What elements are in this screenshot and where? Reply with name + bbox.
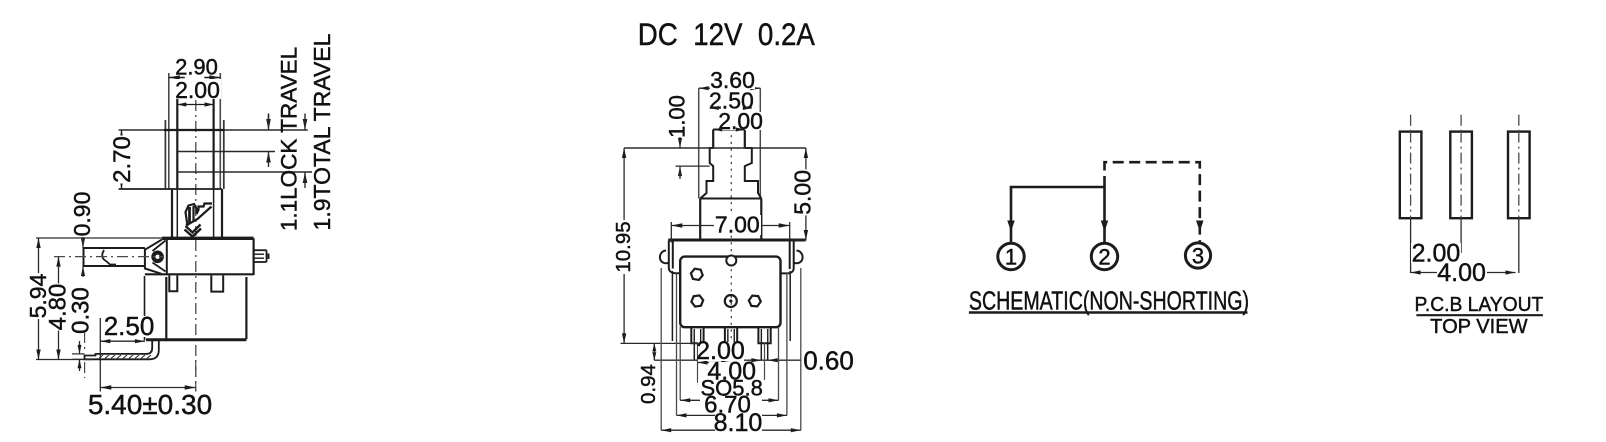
svg-text:0.60: 0.60: [803, 346, 854, 376]
svg-text:2.00: 2.00: [175, 77, 220, 103]
svg-text:1: 1: [1005, 245, 1017, 270]
svg-text:2: 2: [1098, 245, 1110, 270]
svg-text:TOP VIEW: TOP VIEW: [1430, 316, 1528, 338]
svg-text:1.9TOTAL TRAVEL: 1.9TOTAL TRAVEL: [309, 33, 335, 230]
svg-text:2.90: 2.90: [175, 54, 218, 79]
svg-text:P.C.B LAYOUT: P.C.B LAYOUT: [1415, 293, 1544, 316]
svg-text:10.95: 10.95: [612, 221, 635, 272]
svg-text:1.1LOCK TRAVEL: 1.1LOCK TRAVEL: [276, 47, 301, 231]
svg-text:DC 12V 0.2A: DC 12V 0.2A: [638, 18, 815, 53]
svg-text:5.40±0.30: 5.40±0.30: [88, 389, 212, 420]
svg-text:0.30: 0.30: [67, 287, 94, 334]
svg-text:2.50: 2.50: [104, 311, 155, 341]
svg-text:5.00: 5.00: [789, 170, 815, 215]
svg-text:2.70: 2.70: [109, 136, 136, 183]
svg-text:SCHEMATIC(NON-SHORTING): SCHEMATIC(NON-SHORTING): [969, 286, 1249, 315]
svg-text:4.00: 4.00: [1437, 259, 1486, 287]
svg-text:0.94: 0.94: [637, 364, 660, 404]
svg-text:8.10: 8.10: [714, 409, 763, 437]
svg-text:7.00: 7.00: [715, 212, 760, 238]
svg-text:0.90: 0.90: [69, 192, 95, 237]
svg-text:3: 3: [1192, 244, 1204, 269]
svg-text:1.00: 1.00: [665, 95, 690, 138]
